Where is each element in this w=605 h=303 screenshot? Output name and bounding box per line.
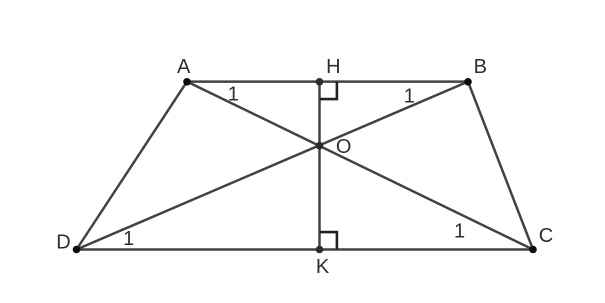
- svg-text:1: 1: [228, 83, 239, 105]
- point B: [464, 78, 472, 86]
- segment DC (bottom side of trapezoid): [77, 248, 534, 251]
- svg-text:1: 1: [404, 85, 415, 107]
- svg-text:B: B: [474, 56, 487, 78]
- svg-text:D: D: [56, 231, 70, 253]
- svg-text:C: C: [539, 225, 553, 247]
- segment AD (left side): [77, 82, 188, 250]
- svg-text:K: K: [316, 256, 330, 278]
- point K: [316, 246, 324, 254]
- segment BC (right side): [468, 82, 533, 250]
- svg-text:1: 1: [123, 228, 134, 250]
- right angle mark at H: [320, 82, 337, 100]
- svg-text:O: O: [336, 136, 352, 158]
- point C: [529, 246, 537, 254]
- diagonal AC: [187, 82, 533, 250]
- svg-text:H: H: [326, 56, 340, 78]
- point D: [73, 246, 81, 254]
- diagonal BD: [77, 82, 469, 250]
- svg-text:1: 1: [454, 220, 465, 242]
- point O: [316, 142, 324, 150]
- svg-text:A: A: [177, 56, 191, 78]
- segment HK (vertical altitude): [318, 82, 321, 250]
- point H: [316, 78, 324, 86]
- segment AB (top side of trapezoid): [187, 80, 468, 83]
- right angle mark at K: [320, 232, 337, 249]
- point A: [183, 78, 191, 86]
